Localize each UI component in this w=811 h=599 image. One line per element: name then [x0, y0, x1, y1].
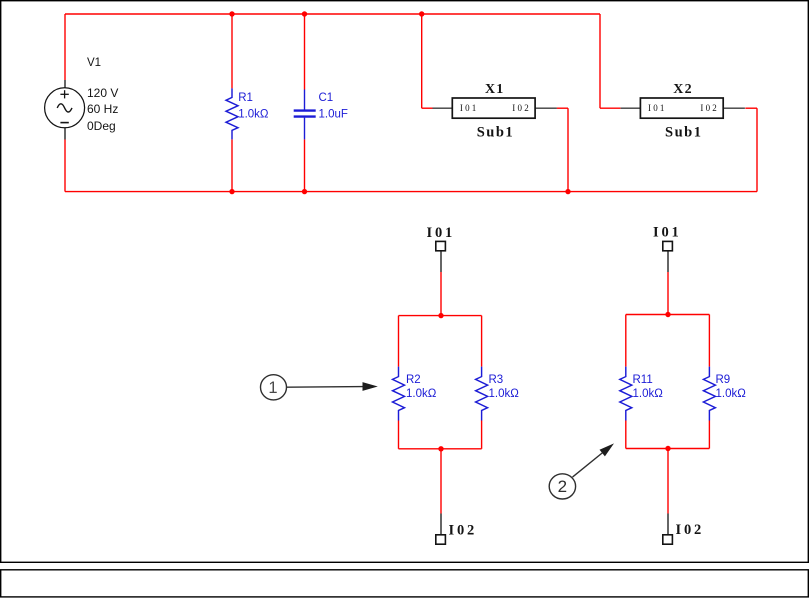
svg-text:1.0kΩ: 1.0kΩ	[633, 388, 664, 400]
svg-text:R9: R9	[716, 374, 731, 386]
svg-text:1.0kΩ: 1.0kΩ	[238, 108, 269, 120]
svg-text:I01: I01	[460, 103, 479, 113]
svg-text:R1: R1	[238, 92, 253, 104]
svg-text:0Deg: 0Deg	[87, 119, 116, 133]
svg-text:R3: R3	[489, 374, 504, 386]
svg-text:Sub1: Sub1	[477, 124, 514, 140]
svg-text:I01: I01	[648, 103, 667, 113]
svg-text:R2: R2	[406, 374, 421, 386]
svg-text:1.0kΩ: 1.0kΩ	[406, 388, 437, 400]
svg-text:1.0kΩ: 1.0kΩ	[716, 388, 747, 400]
svg-text:1.0uF: 1.0uF	[319, 108, 348, 120]
svg-text:I02: I02	[449, 523, 478, 539]
svg-text:Sub1: Sub1	[665, 124, 702, 140]
svg-text:I02: I02	[676, 522, 705, 538]
svg-text:2: 2	[558, 477, 567, 496]
svg-text:1: 1	[268, 379, 277, 397]
svg-text:V1: V1	[87, 57, 101, 69]
svg-text:1.0kΩ: 1.0kΩ	[489, 388, 520, 400]
svg-text:I01: I01	[427, 225, 456, 241]
svg-text:60 Hz: 60 Hz	[87, 102, 118, 116]
svg-text:X1: X1	[485, 82, 505, 97]
svg-text:I02: I02	[700, 103, 719, 113]
svg-text:120 V: 120 V	[87, 86, 118, 100]
svg-text:R11: R11	[633, 374, 653, 386]
svg-text:I02: I02	[512, 103, 531, 113]
svg-text:I01: I01	[653, 224, 682, 240]
svg-text:C1: C1	[319, 92, 334, 104]
svg-text:X2: X2	[673, 82, 693, 97]
